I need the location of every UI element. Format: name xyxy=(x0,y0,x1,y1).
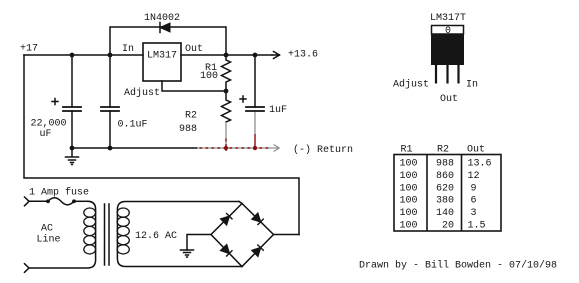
svg-text:1.5: 1.5 xyxy=(468,221,486,232)
svg-text:In: In xyxy=(122,44,134,55)
svg-text:1uF: 1uF xyxy=(269,105,287,116)
svg-text:AC: AC xyxy=(41,224,53,235)
svg-text:100: 100 xyxy=(200,71,218,82)
svg-text:Drawn by - Bill Bowden - 07/10: Drawn by - Bill Bowden - 07/10/98 xyxy=(359,260,557,272)
svg-text:100: 100 xyxy=(400,183,418,194)
svg-text:Out: Out xyxy=(467,145,485,156)
svg-text:140: 140 xyxy=(436,208,454,219)
svg-text:Adjust: Adjust xyxy=(124,87,160,99)
svg-text:3: 3 xyxy=(471,208,477,219)
svg-text:0: 0 xyxy=(445,26,451,37)
svg-text:620: 620 xyxy=(436,183,454,194)
svg-text:1N4002: 1N4002 xyxy=(144,13,180,24)
svg-text:1 Amp fuse: 1 Amp fuse xyxy=(29,187,89,199)
svg-text:988: 988 xyxy=(436,159,454,170)
svg-text:988: 988 xyxy=(179,124,197,135)
svg-text:+17: +17 xyxy=(20,44,38,55)
svg-text:6: 6 xyxy=(471,196,477,207)
svg-text:Out: Out xyxy=(440,94,458,105)
svg-text:Adjust: Adjust xyxy=(393,79,429,91)
svg-text:380: 380 xyxy=(436,196,454,207)
svg-text:0.1uF: 0.1uF xyxy=(118,120,148,131)
svg-text:9: 9 xyxy=(471,183,477,194)
svg-text:100: 100 xyxy=(400,221,418,232)
svg-text:100: 100 xyxy=(400,171,418,182)
svg-text:R2: R2 xyxy=(437,145,449,156)
svg-text:100: 100 xyxy=(400,196,418,207)
svg-text:100: 100 xyxy=(400,159,418,170)
svg-text:12: 12 xyxy=(468,171,480,182)
svg-text:22,000: 22,000 xyxy=(31,119,67,130)
svg-text:12.6 AC: 12.6 AC xyxy=(135,231,177,242)
svg-text:100: 100 xyxy=(400,208,418,219)
svg-text:R2: R2 xyxy=(185,111,197,122)
svg-text:Out: Out xyxy=(185,44,203,55)
svg-text:13.6: 13.6 xyxy=(468,159,492,170)
svg-text:LM317T: LM317T xyxy=(430,13,466,24)
svg-text:20: 20 xyxy=(442,221,454,232)
svg-text:+13.6: +13.6 xyxy=(288,50,318,61)
svg-text:Line: Line xyxy=(37,234,61,246)
svg-text:uF: uF xyxy=(40,129,52,140)
svg-text:R1: R1 xyxy=(401,145,413,156)
svg-text:860: 860 xyxy=(436,171,454,182)
svg-text:LM317: LM317 xyxy=(147,51,177,62)
svg-text:(-) Return: (-) Return xyxy=(293,144,353,156)
svg-text:In: In xyxy=(466,80,478,91)
